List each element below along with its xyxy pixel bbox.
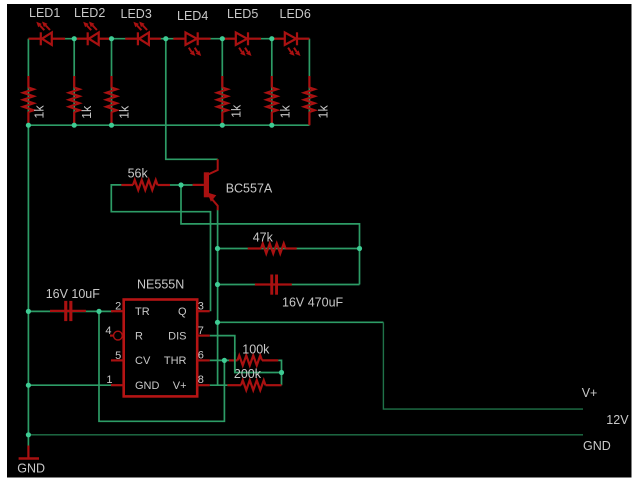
- wire column LED3/R3: [111, 39, 113, 126]
- wire 100k-200k right vertical: [278, 360, 281, 385]
- wire V+ net to label: [218, 321, 384, 323]
- pin 7 DIS: [168, 325, 210, 342]
- pin 8 V+: [173, 374, 210, 392]
- op-amp U1 NE555N body: [124, 278, 198, 397]
- resistor R8 47k: [248, 230, 297, 253]
- svg-text:1k: 1k: [316, 105, 330, 119]
- svg-text:1k: 1k: [80, 105, 94, 119]
- svg-text:1: 1: [106, 374, 112, 386]
- node 47k left: [215, 246, 220, 251]
- node bus j5: [269, 123, 274, 128]
- svg-text:1k: 1k: [229, 104, 243, 118]
- resistor R2 1k: [69, 76, 94, 125]
- node rail TR: [26, 309, 31, 314]
- resistor R10 200k: [227, 367, 281, 390]
- svg-text:V+: V+: [173, 380, 187, 392]
- svg-text:NE555N: NE555N: [137, 278, 184, 292]
- svg-text:1k: 1k: [33, 105, 47, 119]
- svg-text:3: 3: [198, 300, 204, 312]
- svg-text:THR: THR: [164, 355, 187, 367]
- svg-text:4: 4: [105, 325, 111, 337]
- pin 1 GND: [106, 374, 159, 392]
- svg-text:GND: GND: [17, 461, 45, 475]
- LED LED1: [29, 6, 66, 45]
- LED LED2: [74, 6, 111, 45]
- node LED row j5: [269, 36, 274, 41]
- capacitor C1 16V 10uF: [46, 287, 101, 321]
- pin 2 TR: [111, 301, 150, 318]
- wire column middle to transistor: [166, 39, 218, 160]
- svg-text:2: 2: [115, 301, 121, 313]
- ground symbol: [17, 446, 45, 476]
- wire Q output to 56k: [111, 185, 210, 311]
- svg-text:LED6: LED6: [280, 7, 311, 21]
- svg-text:16V 470uF: 16V 470uF: [282, 296, 344, 310]
- pin 3 Q: [178, 300, 210, 318]
- svg-text:GND: GND: [583, 439, 611, 453]
- wire left rail: [27, 39, 29, 446]
- resistor R3 1k: [106, 76, 131, 125]
- LED LED6: [273, 7, 311, 56]
- LED LED3: [121, 7, 161, 46]
- svg-text:7: 7: [198, 325, 204, 337]
- svg-text:BC557A: BC557A: [226, 182, 273, 196]
- node cap left: [215, 282, 220, 287]
- svg-text:CV: CV: [135, 355, 151, 367]
- wire DIS pin7 link: [210, 336, 282, 373]
- wire resistor bottom bus: [28, 124, 309, 126]
- svg-text:R: R: [135, 330, 143, 342]
- resistor R7 56k: [121, 167, 170, 190]
- svg-text:TR: TR: [135, 306, 150, 318]
- svg-text:5: 5: [115, 350, 121, 362]
- node bus j1: [26, 123, 31, 128]
- svg-text:56k: 56k: [128, 167, 149, 181]
- wire 47k row: [218, 248, 360, 250]
- svg-text:LED4: LED4: [177, 9, 208, 23]
- node THR junction: [222, 358, 227, 363]
- wire LED anode bus (top row): [28, 38, 309, 40]
- svg-text:100k: 100k: [242, 343, 270, 357]
- node bus j2: [72, 123, 77, 128]
- wire DIS vertical overlay: [234, 352, 236, 373]
- svg-text:GND: GND: [135, 380, 160, 392]
- svg-text:LED5: LED5: [227, 7, 258, 21]
- svg-text:DIS: DIS: [168, 330, 186, 342]
- resistor R9 100k: [229, 343, 278, 366]
- pin 5 CV: [111, 350, 151, 367]
- node bus j4: [220, 123, 225, 128]
- wire column LED4/R4: [221, 39, 223, 126]
- wire V+ pin8 row: [210, 384, 228, 386]
- pin 6 THR: [164, 349, 210, 367]
- wire column LED6/R6: [308, 39, 310, 126]
- wire TR to THR under IC: [99, 311, 224, 421]
- wire column LED2/R2: [73, 39, 75, 126]
- node LED row jm: [163, 36, 168, 41]
- pin 4 R: [105, 325, 143, 342]
- node rail pin1: [26, 383, 31, 388]
- node TR cap: [96, 309, 101, 314]
- transistor Q1 BC557A: [193, 159, 273, 210]
- resistor R4 1k: [217, 76, 243, 125]
- node 47k right: [357, 246, 362, 251]
- resistor R1 1k: [23, 76, 47, 125]
- node V+ junction: [215, 320, 220, 325]
- wire GND pin1 row: [28, 384, 113, 386]
- svg-text:8: 8: [198, 374, 204, 386]
- node bus j3: [109, 123, 114, 128]
- node LED row j4: [220, 36, 225, 41]
- wire column LED5/R5: [271, 39, 273, 126]
- svg-text:1k: 1k: [279, 104, 293, 118]
- resistor R6 1k: [304, 76, 330, 125]
- node LED row j2: [72, 36, 77, 41]
- wire THR pin6 row: [210, 359, 230, 361]
- resistor R5 1k: [267, 76, 293, 125]
- node LED row j3: [109, 36, 114, 41]
- node DIS junction: [279, 370, 284, 375]
- LED LED4: [173, 9, 210, 56]
- wire emitter to V+ node: [217, 210, 219, 386]
- svg-text:LED3: LED3: [121, 7, 152, 21]
- wire TR row: [28, 310, 113, 312]
- LED LED5: [224, 7, 261, 56]
- capacitor C2 16V 470uF: [255, 275, 344, 310]
- wire GND net long: [28, 434, 583, 436]
- node base junction: [178, 182, 183, 187]
- svg-text:Q: Q: [178, 306, 187, 318]
- svg-text:LED2: LED2: [74, 6, 105, 20]
- svg-text:12V: 12V: [606, 413, 629, 427]
- svg-text:6: 6: [198, 349, 204, 361]
- svg-text:16V 10uF: 16V 10uF: [46, 287, 101, 301]
- svg-text:LED1: LED1: [29, 6, 60, 20]
- wire 470uF row: [218, 284, 360, 286]
- svg-text:47k: 47k: [253, 230, 274, 244]
- svg-text:200k: 200k: [234, 367, 262, 381]
- svg-text:1k: 1k: [117, 105, 131, 119]
- node rail gnd: [26, 432, 31, 437]
- wire base to cap-resistor right side: [181, 185, 360, 285]
- wire 56k to base: [170, 184, 193, 186]
- svg-text:V+: V+: [582, 386, 598, 400]
